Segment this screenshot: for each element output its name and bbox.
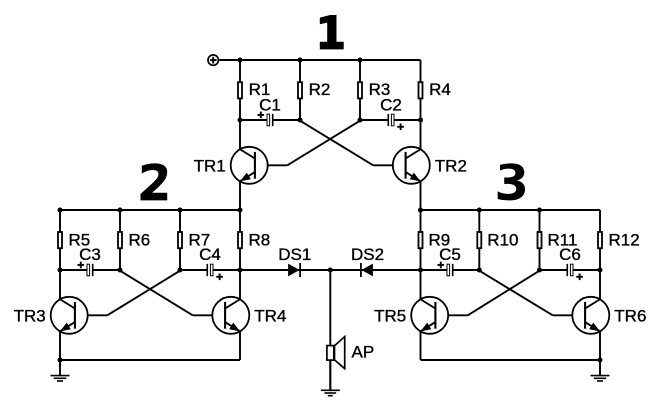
wire R11 node to TR5 base [468, 271, 540, 316]
wire R6 node to TR4 base [120, 271, 193, 316]
junction R11 top [537, 208, 542, 213]
wire speaker node down [329, 270, 331, 346]
svg-text:TR6: TR6 [614, 306, 646, 325]
ground speaker [321, 360, 340, 396]
section label 2 [141, 163, 168, 200]
capacitor C4 [180, 245, 240, 280]
transistor TR6 [572, 270, 646, 360]
svg-text:TR4: TR4 [254, 306, 286, 325]
capacitor C5 [421, 245, 480, 276]
resistor R5 [58, 210, 90, 270]
wire section-3 ground rail [421, 359, 601, 361]
svg-text:AP: AP [352, 342, 375, 361]
svg-text:C5: C5 [439, 245, 461, 264]
svg-text:R12: R12 [609, 230, 640, 249]
resistor R4 [419, 60, 451, 120]
resistor R11 [538, 210, 578, 270]
diode DS2 [351, 245, 384, 277]
wire R2 node to TR2 base [300, 121, 373, 166]
wire R10 node to TR6 base [479, 271, 552, 316]
svg-text:C6: C6 [559, 245, 581, 264]
junction C4 / R7 node [178, 268, 183, 273]
resistor R10 [477, 210, 518, 270]
wire top supply rail [219, 59, 420, 61]
junction TR3 collector / C3 / R5 [58, 268, 63, 273]
capacitor C3 [60, 245, 120, 276]
resistor R9 [419, 210, 451, 270]
junction TR3 emitter / ground [58, 358, 63, 363]
resistor R7 [178, 210, 210, 270]
junction rail corner R5 [58, 208, 63, 213]
diode DS1 [278, 245, 311, 277]
svg-text:C1: C1 [259, 96, 281, 115]
transistor TR3 [14, 270, 88, 360]
transistor TR5 [374, 270, 448, 360]
section label 3 [498, 163, 525, 200]
svg-text:R6: R6 [129, 230, 151, 249]
ground section 3 [591, 360, 610, 381]
svg-text:R8: R8 [249, 230, 271, 249]
svg-text:DS1: DS1 [278, 245, 311, 264]
svg-text:TR2: TR2 [435, 156, 467, 175]
wire section-2 supply rail [60, 209, 240, 211]
junction TR6 emitter / ground [598, 358, 603, 363]
junction R6 top [118, 208, 123, 213]
junction R2 top [298, 58, 303, 63]
svg-text:TR1: TR1 [194, 156, 226, 175]
resistor R1 [238, 60, 270, 120]
junction TR2 collector / C2 / R4 [418, 118, 423, 123]
resistor R3 [358, 60, 390, 120]
transistor TR4 [212, 270, 286, 360]
junction C1 / R2 node [298, 118, 303, 123]
capacitor C6 [540, 245, 601, 280]
junction R3 top [358, 58, 363, 63]
resistor R6 [118, 210, 150, 270]
junction speaker node [328, 268, 333, 273]
wire R7 node to TR3 base [107, 271, 180, 316]
svg-text:R2: R2 [309, 80, 331, 99]
svg-text:TR3: TR3 [14, 306, 46, 325]
junction R1 top [238, 58, 243, 63]
svg-text:C2: C2 [380, 96, 402, 115]
capacitor C2 [360, 96, 421, 131]
junction R7 top [178, 208, 183, 213]
wire speaker to ground [329, 360, 331, 390]
wire section-2 ground rail [60, 359, 240, 361]
svg-text:C4: C4 [199, 245, 221, 264]
svg-text:R4: R4 [429, 80, 451, 99]
junction TR5 collector / C5 / R9 / DS2 [418, 268, 423, 273]
resistor R2 [298, 60, 330, 120]
svg-text:DS2: DS2 [351, 245, 384, 264]
svg-text:C3: C3 [79, 245, 101, 264]
svg-text:R10: R10 [487, 230, 518, 249]
capacitor C1 [240, 96, 300, 127]
ground section 2 [51, 360, 70, 381]
junction C4 / R8 / DS1 node [238, 268, 243, 273]
junction C5 / R10 node [477, 268, 482, 273]
junction TR1 emitter / R8 / rail [238, 208, 243, 213]
junction TR6 collector / C6 / R12 [598, 268, 603, 273]
junction C3 / R6 node [118, 268, 123, 273]
wire diode row [240, 269, 421, 271]
junction C6 / R11 node [537, 268, 542, 273]
junction TR1 collector / C1 / R1 [238, 118, 243, 123]
transistor TR2 [393, 120, 467, 210]
wire R3 node to TR1 base [287, 121, 360, 166]
resistor R8 [238, 210, 270, 270]
transistor TR1 [194, 120, 268, 210]
wire section-3 supply rail [421, 209, 601, 211]
speaker AP [327, 337, 374, 369]
section label 1 [320, 15, 344, 49]
resistor R12 [598, 210, 640, 270]
junction C2 / R3 node [358, 118, 363, 123]
junction TR2 emitter / R9 / rail [418, 208, 423, 213]
svg-text:TR5: TR5 [374, 306, 406, 325]
junction R10 top [477, 208, 482, 213]
power supply + terminal [208, 55, 218, 65]
